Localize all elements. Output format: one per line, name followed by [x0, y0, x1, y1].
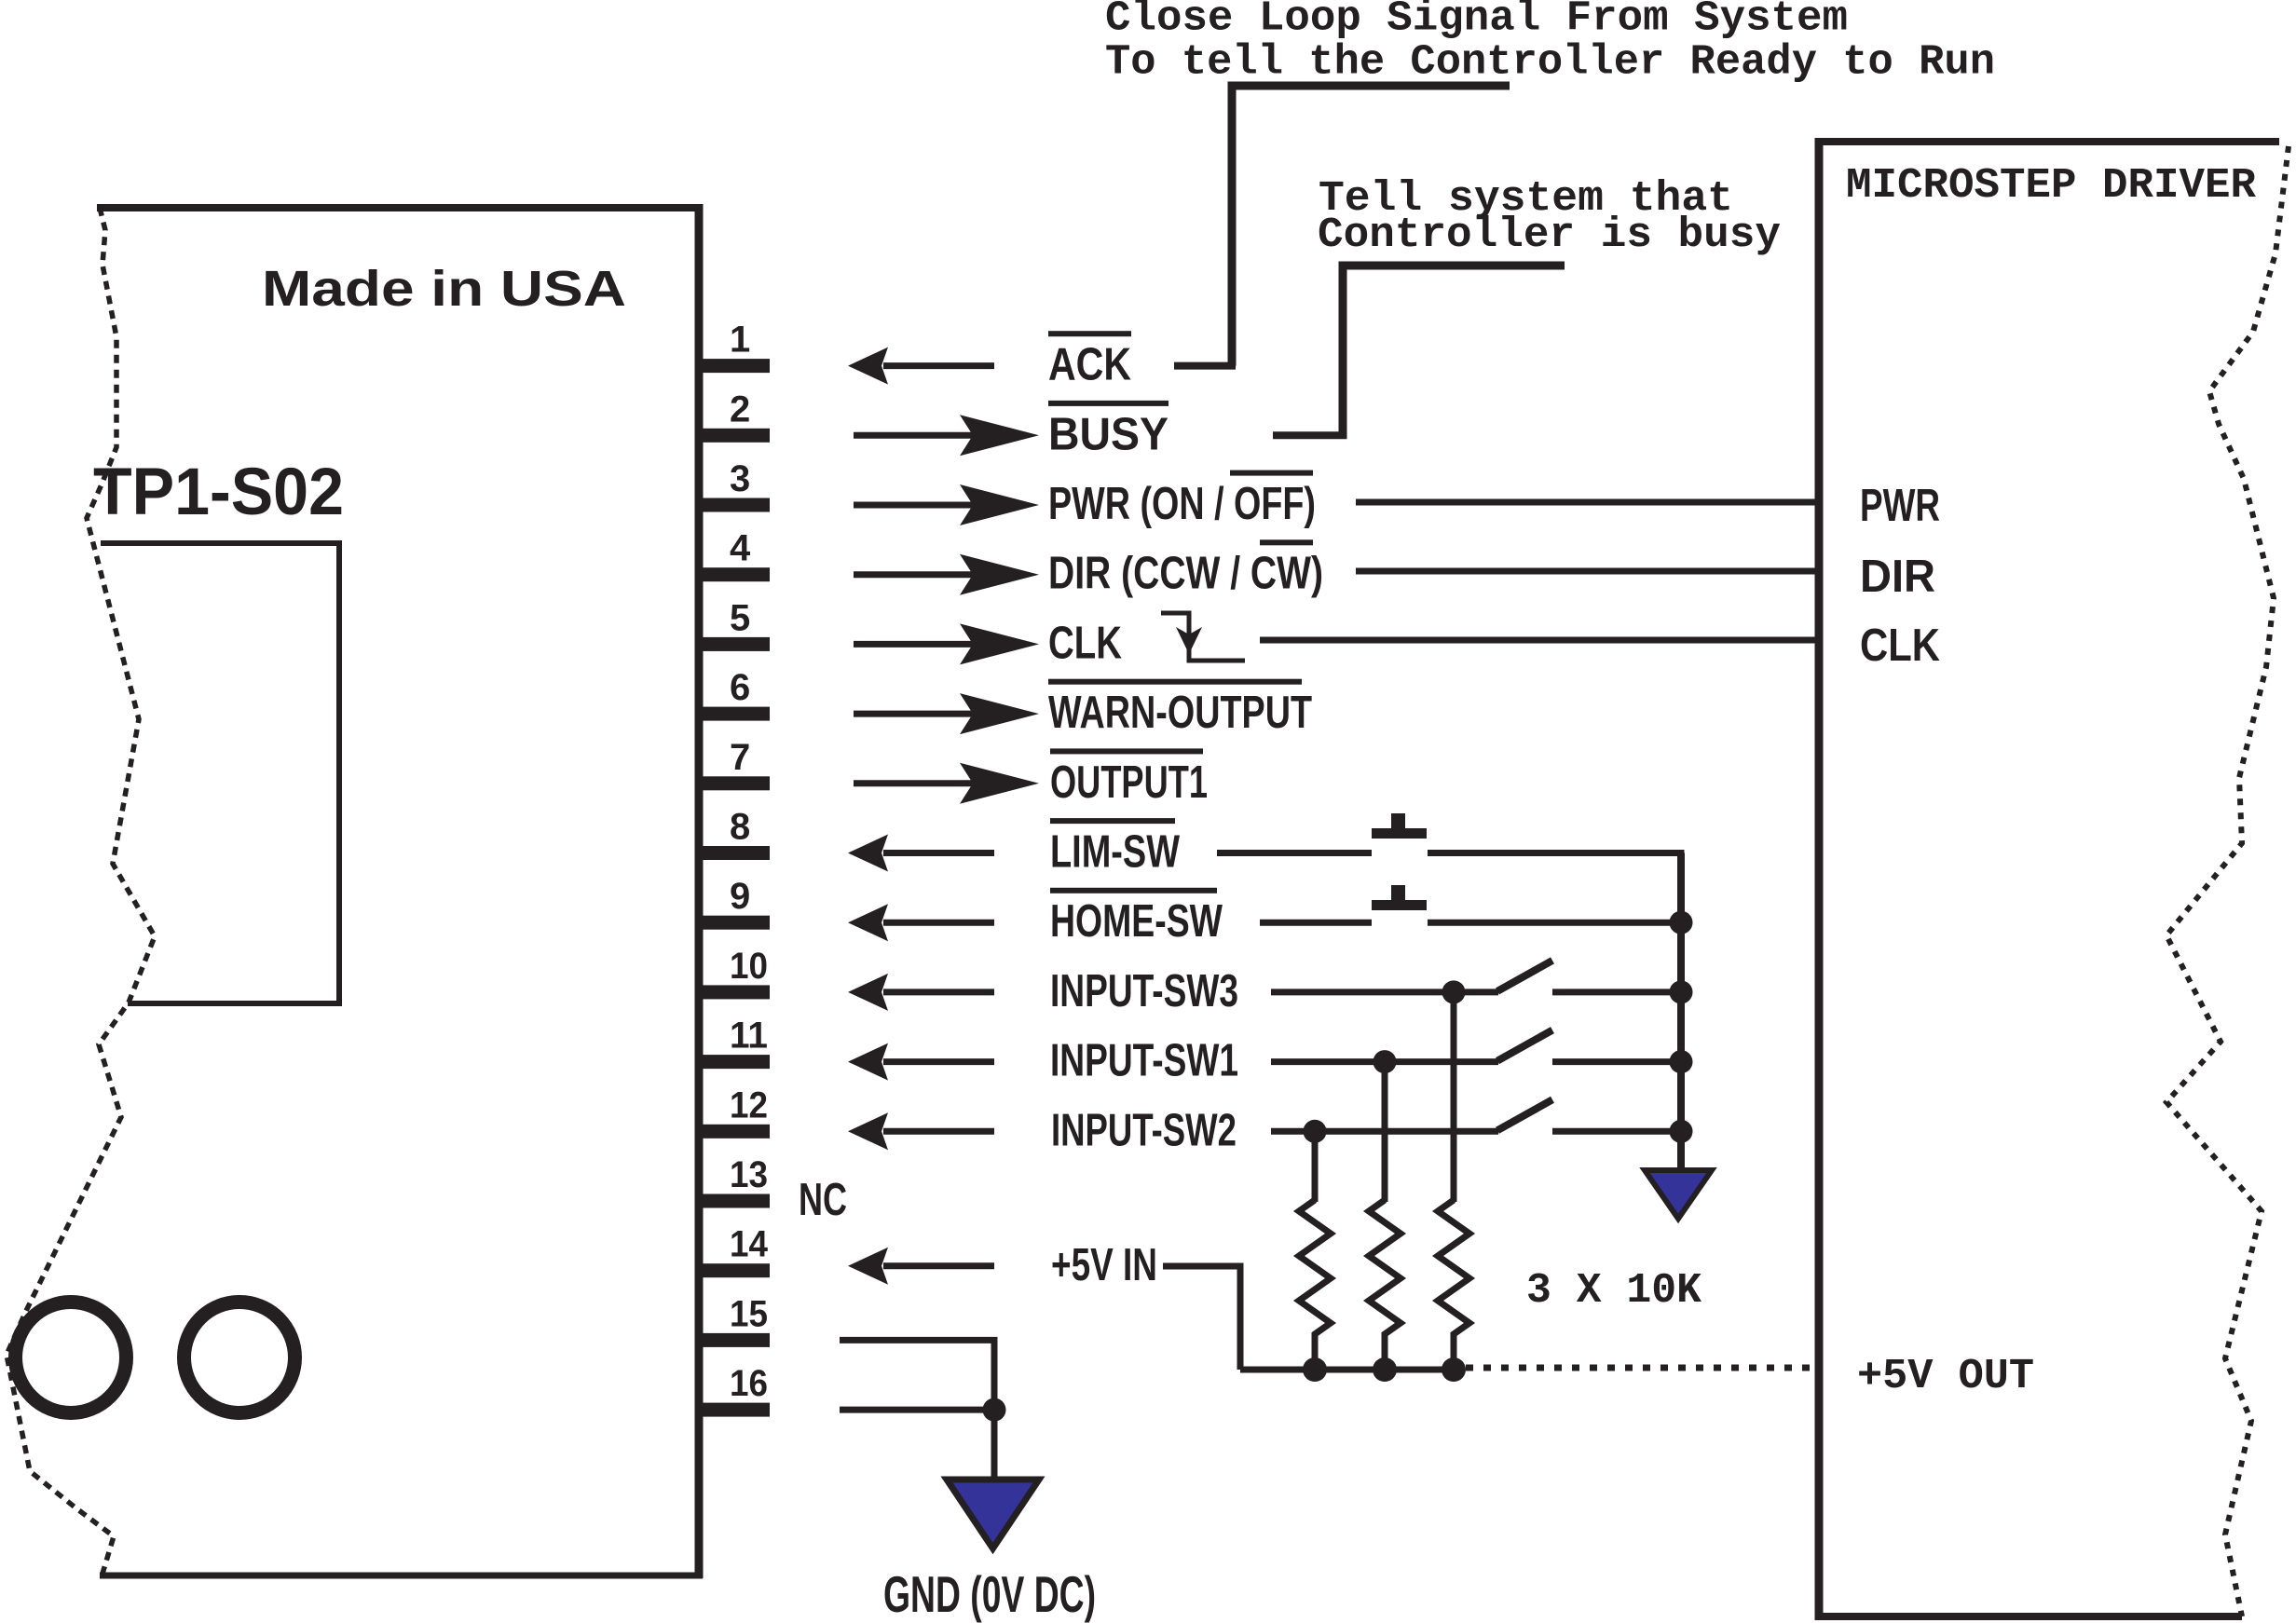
- wire from INPUT-SW3 label to switch: [1271, 989, 1498, 995]
- pin 2 tick and number: [699, 389, 770, 443]
- wire PWR to microstep driver: [1356, 499, 1819, 506]
- switch blade INPUT-SW2: [1497, 1099, 1552, 1130]
- resistor R3 (10K): [1438, 1200, 1469, 1370]
- svg-text:10: 10: [730, 946, 768, 987]
- junction node at INPUT-SW1 and bus: [1670, 1050, 1693, 1073]
- svg-text:CLK: CLK: [1860, 621, 1940, 671]
- wire from INPUT-SW3 node down to resistor: [1451, 992, 1457, 1202]
- controller board right edge (connector spine): [695, 204, 704, 1578]
- pushbutton switch SW-HOME (normally closed): [1372, 885, 1427, 910]
- overline for HOME-SW: [1050, 888, 1217, 893]
- switch blade INPUT-SW1: [1497, 1030, 1552, 1061]
- wire BUSY label to annotation: [1273, 431, 1347, 439]
- svg-text:GND (0V DC): GND (0V DC): [883, 1565, 1096, 1623]
- svg-text:8: 8: [730, 807, 750, 848]
- junction node on INPUT-SW2 wire: [1304, 1120, 1327, 1143]
- arrow out of pin 4 (points right, output): [854, 554, 1039, 595]
- wire ACK label to annotation: [1174, 362, 1236, 370]
- pin 1 tick and number: [699, 320, 770, 374]
- junction node at INPUT-SW3 and bus: [1670, 980, 1693, 1003]
- microstep driver box top edge: [1815, 138, 2279, 145]
- junction node on INPUT-SW1 wire: [1373, 1050, 1397, 1073]
- arrow out of pin 3 (points right, output): [854, 484, 1039, 525]
- svg-text:NC: NC: [799, 1175, 847, 1225]
- pin 11 tick and number: [699, 1016, 770, 1070]
- svg-text:Controller is busy: Controller is busy: [1318, 211, 1781, 259]
- pin 10 tick and number: [699, 946, 770, 1000]
- CLK falling-edge symbol: [1161, 613, 1245, 661]
- pin 4 tick and number: [699, 528, 770, 582]
- junction node R1 bottom: [1303, 1357, 1327, 1382]
- mounting hole circle right: [184, 1302, 295, 1413]
- svg-text:WARN-OUTPUT: WARN-OUTPUT: [1048, 688, 1312, 738]
- controller board top edge: [97, 204, 703, 211]
- ground symbol GND: [947, 1480, 1039, 1548]
- svg-text:12: 12: [730, 1084, 768, 1125]
- arrow into pin 10 (points left, into controller): [848, 974, 994, 1011]
- wire from INPUT-SW1 node down to resistor: [1382, 1062, 1388, 1202]
- svg-text:To tell the Controller Ready t: To tell the Controller Ready to Run: [1105, 38, 1995, 87]
- overline for BUSY: [1048, 401, 1168, 406]
- pin 5 tick and number: [699, 597, 770, 651]
- pin 13 tick and number: [699, 1154, 770, 1208]
- resistor R1 (10K): [1299, 1200, 1331, 1370]
- wire from LIM-SW label to switch: [1217, 850, 1372, 856]
- wire from HOME-SW switch to ground bus: [1428, 920, 1681, 926]
- svg-text:3 X 10K: 3 X 10K: [1526, 1266, 1701, 1315]
- arrow into pin 8 (points left, into controller): [848, 835, 994, 872]
- wire from +5V IN label elbow: [1163, 1266, 1240, 1370]
- junction node at HOME-SW and bus: [1670, 911, 1693, 934]
- arrow into pin 9 (points left, into controller): [848, 904, 994, 941]
- wire down to GND symbol: [991, 1410, 998, 1481]
- pin 7 tick and number: [699, 737, 770, 791]
- overline for OFF: [1230, 471, 1313, 476]
- svg-text:MICROSTEP DRIVER: MICROSTEP DRIVER: [1846, 161, 2257, 210]
- resistor R2 (10K): [1369, 1200, 1401, 1370]
- svg-text:INPUT-SW3: INPUT-SW3: [1050, 966, 1238, 1016]
- wire from INPUT-SW1 switch to ground bus: [1552, 1058, 1681, 1065]
- inner rectangle on board: [101, 543, 339, 1003]
- junction node R3 bottom: [1442, 1357, 1466, 1382]
- ground bus vertical wire: [1677, 853, 1685, 1173]
- svg-text:ACK: ACK: [1048, 340, 1131, 390]
- svg-text:11: 11: [730, 1016, 768, 1057]
- wire from INPUT-SW1 label to switch: [1271, 1058, 1498, 1065]
- svg-text:16: 16: [730, 1363, 768, 1404]
- svg-text:TP1-S02: TP1-S02: [93, 456, 344, 529]
- pin 3 tick and number: [699, 458, 770, 512]
- pin 12 tick and number: [699, 1084, 770, 1139]
- svg-text:PWR: PWR: [1860, 481, 1940, 531]
- wire from INPUT-SW3 switch to ground bus: [1552, 989, 1681, 995]
- wire from BUSY annotation elbow: [1343, 266, 1565, 435]
- overline for LIM-SW: [1050, 818, 1175, 824]
- pin 16 tick and number: [699, 1363, 770, 1417]
- svg-text:3: 3: [730, 458, 750, 499]
- junction node R2 bottom: [1373, 1357, 1397, 1382]
- svg-text:5: 5: [730, 597, 750, 638]
- svg-text:PWR (ON / OFF): PWR (ON / OFF): [1048, 479, 1316, 529]
- microstep driver dotted jagged right edge: [2166, 146, 2289, 1616]
- dotted wire to +5V OUT of driver: [1466, 1365, 1819, 1371]
- svg-text:2: 2: [730, 389, 750, 430]
- svg-text:14: 14: [730, 1224, 769, 1265]
- svg-text:4: 4: [730, 528, 751, 569]
- arrow into pin 11 (points left, into controller): [848, 1043, 994, 1081]
- svg-text:INPUT-SW1: INPUT-SW1: [1050, 1036, 1238, 1086]
- wire from ACK annotation elbow: [1232, 86, 1510, 366]
- wire CLK to microstep driver: [1260, 637, 1819, 644]
- mounting hole circle left: [16, 1302, 127, 1413]
- wire from INPUT-SW2 node down to resistor: [1312, 1131, 1319, 1202]
- overline for OUTPUT1: [1050, 748, 1203, 754]
- wire from HOME-SW label to switch: [1260, 920, 1372, 926]
- controller board dashed jagged left edge: [7, 208, 155, 1574]
- svg-text:+5V IN: +5V IN: [1051, 1240, 1157, 1290]
- svg-text:BUSY: BUSY: [1048, 409, 1168, 459]
- svg-text:13: 13: [730, 1154, 768, 1195]
- svg-text:CLK: CLK: [1048, 618, 1122, 668]
- pin 8 tick and number: [699, 807, 770, 861]
- svg-text:Close Loop Signal From System: Close Loop Signal From System: [1105, 0, 1848, 43]
- junction node pin15/16: [983, 1398, 1006, 1422]
- junction node at INPUT-SW2 and bus: [1670, 1120, 1693, 1143]
- wire from INPUT-SW2 label to switch: [1271, 1128, 1498, 1135]
- svg-text:LIM-SW: LIM-SW: [1050, 827, 1181, 878]
- svg-text:DIR (CCW / CW): DIR (CCW / CW): [1048, 549, 1323, 599]
- wire from LIM-SW switch to ground bus: [1428, 853, 1681, 923]
- wire from INPUT-SW2 switch to ground bus: [1552, 1128, 1681, 1135]
- wire DIR to microstep driver: [1356, 568, 1819, 575]
- arrow out of pin 5 (points right, output): [854, 623, 1039, 664]
- pushbutton switch SW-LIM (normally closed): [1372, 813, 1427, 839]
- overline for ACK: [1048, 331, 1131, 336]
- svg-text:Made in USA: Made in USA: [262, 261, 626, 317]
- svg-text:DIR: DIR: [1860, 552, 1935, 602]
- pin 15 tick and number: [699, 1293, 770, 1347]
- svg-text:+5V OUT: +5V OUT: [1857, 1352, 2034, 1400]
- overline for WARN-OUTPUT: [1048, 679, 1302, 685]
- +5V solid wire under resistors: [1240, 1367, 1455, 1373]
- microstep driver box left edge: [1815, 138, 1824, 1620]
- svg-text:15: 15: [730, 1293, 768, 1334]
- junction node on INPUT-SW3 wire: [1442, 980, 1466, 1003]
- controller board bottom edge: [100, 1573, 703, 1579]
- arrow into pin 14 (points left, into controller): [848, 1248, 994, 1285]
- svg-text:7: 7: [730, 737, 750, 778]
- arrow out of pin 2 (points right, output): [854, 415, 1039, 456]
- svg-text:1: 1: [730, 320, 750, 361]
- pin 6 tick and number: [699, 667, 770, 721]
- wire from pin 15: [840, 1340, 994, 1410]
- ground symbol at bus bottom: [1645, 1170, 1712, 1219]
- microstep driver box bottom edge: [1815, 1613, 2242, 1620]
- arrow into pin 1 (points left, into controller): [848, 348, 994, 385]
- arrow into pin 12 (points left, into controller): [848, 1112, 994, 1150]
- svg-text:9: 9: [730, 876, 750, 917]
- pin 9 tick and number: [699, 876, 770, 930]
- switch blade INPUT-SW3: [1497, 961, 1552, 991]
- svg-text:6: 6: [730, 667, 750, 708]
- svg-text:INPUT-SW2: INPUT-SW2: [1051, 1105, 1237, 1155]
- overline for CW: [1260, 539, 1313, 545]
- arrow out of pin 6 (points right, output): [854, 693, 1039, 734]
- svg-text:HOME-SW: HOME-SW: [1050, 896, 1223, 947]
- wire from pin 16: [840, 1407, 994, 1413]
- arrow out of pin 7 (points right, output): [854, 763, 1039, 804]
- pin 14 tick and number: [699, 1224, 770, 1278]
- svg-text:OUTPUT1: OUTPUT1: [1050, 757, 1208, 808]
